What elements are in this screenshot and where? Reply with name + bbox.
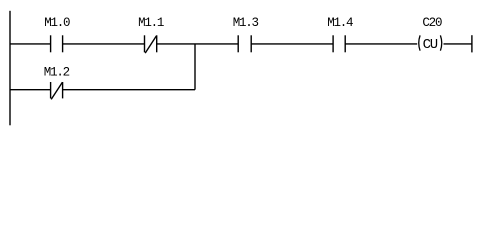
wire M1.0 to M1.1 <box>63 43 145 45</box>
svg-text:M1.1: M1.1 <box>138 16 164 30</box>
right terminal bar <box>471 35 473 52</box>
coil right parenthesis <box>440 35 441 50</box>
branch wire from rail to M1.2 <box>10 89 51 91</box>
vertical junction wire <box>194 44 196 90</box>
contact M1.0 (NO) <box>51 35 63 52</box>
wire M1.4 to coil <box>345 43 417 45</box>
svg-text:C20: C20 <box>422 16 442 30</box>
contact M1.1 (NC) <box>145 35 157 53</box>
coil C20 counter-up (CU): left parenthesis <box>419 35 420 50</box>
svg-text:M1.0: M1.0 <box>44 16 70 30</box>
wire M1.1 to M1.3 <box>157 43 239 45</box>
contact M1.2 (NC) <box>51 82 63 99</box>
wire rail to M1.0 <box>10 43 51 45</box>
svg-text:M1.4: M1.4 <box>327 16 353 30</box>
svg-text:CU: CU <box>423 37 438 53</box>
wire M1.3 to M1.4 <box>251 43 333 45</box>
contact M1.4 (NO) <box>333 35 345 52</box>
wire coil to right terminal <box>444 43 472 45</box>
svg-text:M1.2: M1.2 <box>44 66 70 80</box>
branch wire M1.2 to junction <box>63 89 195 91</box>
svg-text:M1.3: M1.3 <box>233 16 259 30</box>
left power rail <box>9 11 11 126</box>
contact M1.3 (NO) <box>238 35 251 52</box>
